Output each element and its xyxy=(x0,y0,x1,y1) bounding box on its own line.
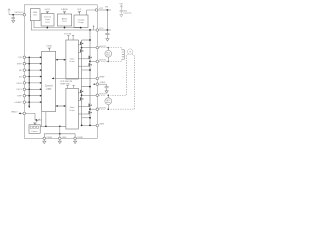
pin VREF xyxy=(96,77,99,80)
block U1 M8V LDO xyxy=(30,9,40,21)
wire source link A xyxy=(82,69,90,71)
ground GND4 xyxy=(105,91,108,93)
wire sense line y78.2 with arrow to control xyxy=(52,77,98,79)
svg-text:VM: VM xyxy=(105,7,108,9)
transistor Q4 low-side A2 xyxy=(88,63,90,66)
block U3 AVDD LDO xyxy=(57,14,71,26)
wire OUT3 xyxy=(82,94,96,96)
FET column A vertical xyxy=(81,40,83,125)
svg-text:DVDD: DVDD xyxy=(46,46,52,48)
ground GND2 xyxy=(106,39,109,41)
junction dot BDC2 bottom xyxy=(108,108,110,110)
junction dot block2/bus1 xyxy=(46,27,48,29)
chain arrow down xyxy=(28,106,30,109)
node OUT3 dot xyxy=(81,94,83,96)
wire source link B xyxy=(82,117,90,119)
svg-text:GND: GND xyxy=(62,137,67,139)
svg-text:Pump: Pump xyxy=(78,22,84,24)
wire control to gate drive 1 double arrow xyxy=(56,59,66,61)
dashed OUT4 segment xyxy=(99,108,105,110)
junction dot VM node xyxy=(107,9,109,11)
wire BDC2 bottom lead xyxy=(107,105,109,110)
dashed OUT3 segment xyxy=(99,94,105,96)
ground GND5 xyxy=(43,141,46,143)
wire gnd riser xyxy=(59,126,61,134)
svg-text:VM (VCC): VM (VCC) xyxy=(15,12,24,14)
transistor Q7 high-side B2 xyxy=(88,104,90,107)
VM rail bridge A xyxy=(82,39,90,41)
svg-text:PGND: PGND xyxy=(77,137,83,139)
svg-text:LDO: LDO xyxy=(62,21,67,23)
wire ISEN bus xyxy=(82,124,96,126)
svg-text:Internal: Internal xyxy=(44,16,51,19)
capacitor C_VCC external xyxy=(105,30,109,39)
wire control bottom to gd2 left xyxy=(40,125,66,127)
wire VCP pin to VM node xyxy=(98,9,111,11)
block U4 Charge Pump xyxy=(74,15,88,27)
junction dot source A xyxy=(89,69,91,71)
svg-text:nFAULT: nFAULT xyxy=(11,110,19,113)
pin IN6 xyxy=(23,88,26,91)
junction dot external cap tee xyxy=(107,29,109,31)
transistor Q3 high-side A2 xyxy=(88,56,90,59)
VM supply arrow symbol top-left xyxy=(8,9,10,15)
wire block1 stub right to bus1 xyxy=(34,21,81,28)
wire OUT4 xyxy=(90,108,96,110)
transistor Q8 low-side B2 xyxy=(88,111,90,114)
wire AVDD pin to external cap xyxy=(99,29,111,31)
protection block arrow from control xyxy=(35,119,39,123)
transistor Q2 low-side A1 xyxy=(80,49,82,52)
junction dot BDC1 bottom xyxy=(108,61,110,63)
wire block1 stub left to bus2 xyxy=(31,21,97,30)
IC outer boundary xyxy=(24,5,97,139)
ground GND7 xyxy=(74,141,77,143)
wire VM node down to AVDD wire xyxy=(106,10,108,30)
transistor Q5 high-side B1 xyxy=(80,90,82,93)
svg-text:VCP: VCP xyxy=(99,8,104,10)
svg-text:Drive: Drive xyxy=(70,109,76,112)
node VINT tick above bus2 xyxy=(93,26,95,30)
motor BDC2 xyxy=(105,98,112,105)
wire control bottom riser xyxy=(45,112,47,126)
svg-text:DEC0: DEC0 xyxy=(17,83,22,85)
svg-text:BOUT1: BOUT1 xyxy=(99,94,107,96)
junction dot rail B xyxy=(89,86,91,88)
svg-text:M0: M0 xyxy=(19,70,22,72)
wire OUT2 xyxy=(90,60,96,62)
ground GND6 xyxy=(58,141,61,143)
chain line left bus xyxy=(28,57,30,106)
svg-text:LDO: LDO xyxy=(33,15,38,17)
dashed stepper lead right down xyxy=(111,54,135,109)
pin nFAULT xyxy=(23,112,26,115)
pin IN1 xyxy=(23,56,26,59)
dashed OUT2 to stepper xyxy=(99,59,122,61)
pin GND right with external cap xyxy=(96,83,99,86)
svg-text:TOFF: TOFF xyxy=(17,96,23,98)
wire VCP from charge pump top to VCP pin xyxy=(87,10,96,15)
motor BDC1 xyxy=(105,50,112,57)
junction dot block4/bus1 xyxy=(80,27,82,29)
svg-text:CREF: CREF xyxy=(100,82,106,84)
wire BDC1 top lead xyxy=(107,48,109,51)
svg-text:5 AVDD: 5 AVDD xyxy=(61,8,69,11)
junction dot VM/cap xyxy=(12,14,14,16)
junction dot ISEN B xyxy=(89,125,91,127)
pin PGND2 xyxy=(74,137,77,140)
stepper winding A coil xyxy=(122,50,125,59)
svg-text:Gate: Gate xyxy=(70,106,76,109)
junction dot BDC2 top xyxy=(108,95,110,97)
pin IN4 xyxy=(23,75,26,78)
pin IN7 xyxy=(23,94,26,97)
svg-text:ISEN: ISEN xyxy=(99,124,104,126)
svg-text:Logic: Logic xyxy=(46,87,53,90)
ground GND3 xyxy=(120,15,123,17)
svg-text:BOUT2: BOUT2 xyxy=(99,108,107,110)
junction dot ISEN A xyxy=(81,125,83,127)
svg-text:VREF: VREF xyxy=(99,77,105,79)
chain dots xyxy=(28,57,30,103)
svg-text:VREF GND: VREF GND xyxy=(60,84,70,86)
pin VM xyxy=(23,14,26,16)
block U6 Gate Drive 1 xyxy=(66,40,78,79)
junction dot gnd riser top xyxy=(59,125,61,127)
wire BDC2 top lead xyxy=(107,95,109,98)
node OUT1 dot xyxy=(81,47,83,49)
arrow nFAULT wire xyxy=(35,119,37,121)
ground GND1 xyxy=(12,20,15,22)
block U8 Protection xyxy=(29,125,40,134)
wire BDC1 bottom lead xyxy=(107,57,109,61)
pin VCC (AVDD) right xyxy=(96,29,99,32)
block U7 Gate Drive 2 xyxy=(66,88,78,129)
block U2 Internal Logic LDO xyxy=(41,14,54,26)
dashed stepper lead left down xyxy=(111,54,129,96)
node OUT2 dot xyxy=(89,61,91,63)
svg-text:DEC1: DEC1 xyxy=(17,89,22,91)
svg-text:Charge: Charge xyxy=(78,18,86,21)
svg-text:AVDD: AVDD xyxy=(62,18,68,21)
wire nFAULT to logic xyxy=(26,113,42,120)
svg-text:M1: M1 xyxy=(19,76,22,78)
svg-text:Motor: Motor xyxy=(106,54,111,57)
svg-text:Protect: Protect xyxy=(32,130,38,133)
wire OUT1 xyxy=(82,47,96,49)
FET column B vertical xyxy=(89,30,91,125)
motor STEP xyxy=(128,49,133,54)
wire block2 stub to bus1 xyxy=(46,26,48,28)
pin IN2 xyxy=(23,62,26,64)
svg-text:Capacitor: Capacitor xyxy=(123,12,131,15)
block U5 Control Logic xyxy=(42,51,56,111)
wire control bottom-left extension xyxy=(41,112,43,127)
junction dot rail A xyxy=(89,39,91,41)
pin GND xyxy=(59,137,62,140)
pin IN5 xyxy=(23,82,26,85)
pin VCP xyxy=(95,9,98,12)
svg-text:4 VCC: 4 VCC xyxy=(44,9,50,11)
wire internal gnd bus xyxy=(44,134,75,139)
svg-text:LDO: LDO xyxy=(45,22,50,24)
wire nFAULT out arrow xyxy=(19,112,23,114)
pin BOUT2 xyxy=(96,108,99,111)
pin IN8 xyxy=(23,101,26,104)
svg-text:STEP: STEP xyxy=(17,64,23,66)
pin AOUT1 xyxy=(96,46,99,49)
wire block4 stub to bus1 xyxy=(80,26,82,28)
node OUT4 dot xyxy=(89,108,91,110)
wire control to gate drive 2 double arrow xyxy=(56,105,66,107)
left input pins xyxy=(15,56,42,104)
junction dot gnd bus xyxy=(59,133,61,135)
svg-text:Drive: Drive xyxy=(70,60,76,63)
svg-text:PGND: PGND xyxy=(47,137,53,139)
pin IN3 xyxy=(23,69,26,72)
pin AOUT2 xyxy=(96,60,99,63)
transistor Q6 low-side B1 xyxy=(80,97,82,100)
junction dot bus2 / FET rail riser xyxy=(89,29,91,31)
pin ISEN xyxy=(96,124,99,127)
wire VM supply to VM pin xyxy=(9,14,23,16)
capacitor C_VM xyxy=(12,15,15,21)
FET body arrows xyxy=(82,43,92,114)
pin BOUT1 xyxy=(96,94,99,97)
svg-text:Motor: Motor xyxy=(106,101,111,104)
capacitor C_REF xyxy=(105,84,109,91)
junction dot source B xyxy=(89,117,91,119)
svg-text:Gate: Gate xyxy=(70,57,76,60)
dashed OUT1 to stepper xyxy=(99,48,122,50)
wire block3 stub to bus1 xyxy=(64,26,66,28)
junction dot block3/bus1 xyxy=(64,27,66,29)
junction dot BDC1 top xyxy=(108,47,110,49)
protection icon squares xyxy=(30,126,39,128)
pin PGND1 xyxy=(43,137,46,140)
transistor Q1 high-side A1 xyxy=(80,42,82,45)
VM rail bridge B xyxy=(82,86,90,88)
wire pin2 stub xyxy=(59,134,61,139)
svg-text:nSLEEP: nSLEEP xyxy=(15,102,23,104)
junction dot control riser xyxy=(45,125,47,127)
